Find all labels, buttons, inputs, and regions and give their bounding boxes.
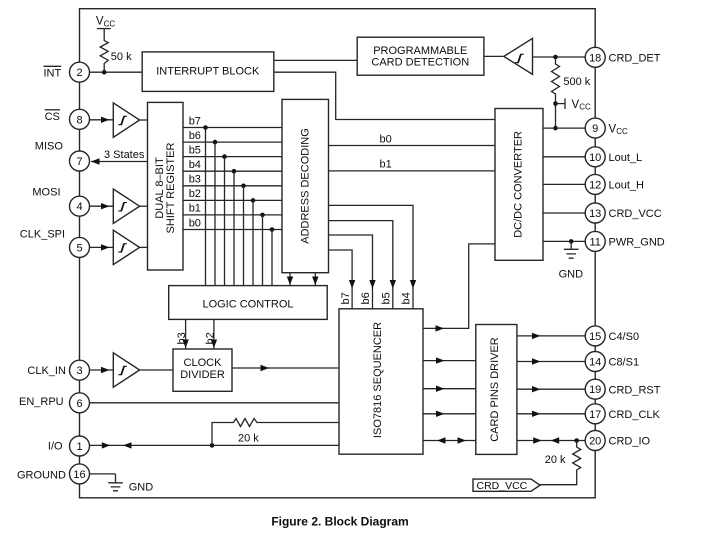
svg-text:b7: b7 xyxy=(189,115,201,127)
svg-text:b1: b1 xyxy=(380,159,392,171)
pin 11 xyxy=(585,231,605,251)
svg-text:20 k: 20 k xyxy=(238,433,259,445)
resistor R 500k xyxy=(552,57,560,128)
svg-text:7: 7 xyxy=(76,156,82,168)
svg-text:b2: b2 xyxy=(189,188,201,200)
svg-text:19: 19 xyxy=(589,384,601,396)
pin 10 xyxy=(585,147,605,167)
wire b0 bus drop to logic control xyxy=(271,230,273,286)
pin 2 xyxy=(70,62,90,82)
ground symbol (pin16) xyxy=(108,474,153,494)
wire b2 bus drop to logic control xyxy=(252,200,254,285)
svg-text:15: 15 xyxy=(589,331,601,343)
pin 8 xyxy=(70,109,90,129)
wire interrupt block to dc/dc converter xyxy=(274,72,495,119)
pin 16 xyxy=(70,464,90,484)
node junction crd_io 20k tap xyxy=(574,438,579,443)
wire b5 bus drop to logic control xyxy=(224,157,226,286)
wire shift register to pin7 (3 states) xyxy=(91,161,148,163)
svg-text:10: 10 xyxy=(589,152,601,164)
svg-text:CS: CS xyxy=(45,111,60,123)
programmable card detection block xyxy=(357,37,484,75)
arrowhead to pin 14 xyxy=(532,358,541,364)
power symbol VCC (right) xyxy=(556,98,591,111)
svg-text:Lout_H: Lout_H xyxy=(609,180,645,192)
svg-text:INTERRUPT BLOCK: INTERRUPT BLOCK xyxy=(156,66,260,78)
arrowhead bidir right xyxy=(458,437,467,443)
svg-text:Figure 2. Block Diagram: Figure 2. Block Diagram xyxy=(271,515,408,529)
pin label VCC xyxy=(609,123,628,136)
wire buffer to pin 18 xyxy=(533,56,586,58)
arrowhead b5 into sequencer xyxy=(390,280,396,289)
pin 12 xyxy=(585,174,605,194)
schmitt buffer U5 (card detect, pointing left) xyxy=(504,38,533,74)
svg-text:b4: b4 xyxy=(400,292,412,304)
svg-text:CRD_VCC: CRD_VCC xyxy=(609,208,662,220)
pin 5 xyxy=(70,237,90,257)
pin 6 xyxy=(70,393,90,413)
arrowhead into logic control left xyxy=(287,277,293,286)
pin 19 xyxy=(585,379,605,399)
wire net b1 address decoding to dc/dc xyxy=(329,170,496,172)
chip boundary xyxy=(80,9,596,498)
node junction CRD_DET/500k xyxy=(553,55,558,60)
address decoding block xyxy=(282,99,329,272)
wire dc/dc to pin 10 xyxy=(543,156,585,158)
arrowhead from pin 20 incoming xyxy=(551,437,560,443)
svg-text:GND: GND xyxy=(559,269,584,281)
svg-text:CRD_IO: CRD_IO xyxy=(609,436,651,448)
wire buffer to clock divider xyxy=(140,369,173,371)
arrowhead b2 into clock divider xyxy=(211,340,217,349)
wire pin16 to ground xyxy=(90,473,116,475)
svg-text:CC: CC xyxy=(104,19,116,28)
svg-text:CARD PINS DRIVER: CARD PINS DRIVER xyxy=(489,337,501,442)
svg-text:3: 3 xyxy=(76,365,82,377)
arrowhead into buffer pin8 xyxy=(101,117,110,123)
svg-text:b3: b3 xyxy=(176,332,188,344)
svg-text:CLK_SPI: CLK_SPI xyxy=(20,229,65,241)
arrowhead to pin 19 xyxy=(532,386,541,392)
wire iso to card pins driver 3 xyxy=(423,413,476,415)
arrowhead to pin 20 outgoing xyxy=(533,437,542,443)
wire net b5 shift register to address decoding xyxy=(183,156,282,158)
svg-text:b2: b2 xyxy=(204,332,216,344)
wire net b2 shift register to address decoding xyxy=(183,199,282,201)
pin 13 xyxy=(585,203,605,223)
pin 15 xyxy=(585,326,605,346)
wire pin8 to buffer xyxy=(90,119,114,121)
arrowhead I/O incoming xyxy=(123,442,132,448)
svg-text:C4/S0: C4/S0 xyxy=(609,331,640,343)
node junction pin2/50k xyxy=(102,70,107,75)
wire logic control b2 to clock divider xyxy=(213,319,215,349)
ground symbol (pin11) xyxy=(559,241,584,280)
wire card detection buffer to block xyxy=(484,55,504,57)
node junction b2 xyxy=(251,198,256,203)
card pins driver block xyxy=(476,325,517,455)
net flag CRD_VCC xyxy=(473,479,540,492)
svg-text:DC/DC CONVERTER: DC/DC CONVERTER xyxy=(513,131,525,238)
svg-text:50 k: 50 k xyxy=(111,51,132,63)
wire dc/dc to pin 9 xyxy=(543,127,585,129)
svg-text:b6: b6 xyxy=(189,130,201,142)
wire pin2 to interrupt block xyxy=(90,71,143,73)
svg-text:I/O: I/O xyxy=(48,441,63,453)
svg-text:2: 2 xyxy=(76,67,82,79)
svg-text:11: 11 xyxy=(589,236,600,248)
pin 14 xyxy=(585,352,605,372)
wire address decoding to iso sequencer b4 xyxy=(329,205,414,308)
wire net b0 shift register to address decoding xyxy=(183,229,282,231)
wire net b1 shift register to address decoding xyxy=(183,214,282,216)
wire b6 bus drop to logic control xyxy=(214,142,216,286)
node junction b0 xyxy=(270,227,275,232)
arrowhead b6 into sequencer xyxy=(369,280,375,289)
wire interrupt block to programmable card detection xyxy=(274,59,357,61)
pin 9 xyxy=(585,118,605,138)
node junction vcc tap xyxy=(553,101,558,106)
wire logic control b3 to clock divider xyxy=(185,319,187,349)
schmitt buffer U3 (CLK_SPI) xyxy=(113,230,139,264)
wire iso to card pins driver 1 xyxy=(423,360,476,362)
svg-text:b0: b0 xyxy=(189,217,201,229)
interrupt block U xyxy=(142,52,274,92)
arrowhead to pin 17 xyxy=(532,411,541,417)
arrowhead into buffer pin3 xyxy=(101,367,110,373)
arrowhead b3 into clock divider xyxy=(182,340,188,349)
svg-text:b0: b0 xyxy=(380,133,392,145)
svg-text:CARD DETECTION: CARD DETECTION xyxy=(371,57,469,69)
arrowhead into buffer pin4 xyxy=(101,203,110,209)
svg-text:Lout_L: Lout_L xyxy=(609,152,643,164)
pin 20 xyxy=(585,431,605,451)
svg-text:16: 16 xyxy=(73,469,85,481)
svg-text:20: 20 xyxy=(589,436,601,448)
svg-text:12: 12 xyxy=(589,179,601,191)
resistor R 20k (pull-up on I/O) xyxy=(212,419,339,446)
pin 18 xyxy=(585,47,605,67)
svg-text:LOGIC CONTROL: LOGIC CONTROL xyxy=(202,299,293,311)
svg-text:1: 1 xyxy=(76,441,82,453)
wire pin5 to buffer xyxy=(90,246,114,248)
resistor R 50k xyxy=(100,29,108,73)
arrowhead I/O outgoing xyxy=(102,442,111,448)
svg-text:b7: b7 xyxy=(340,292,352,304)
wire iso to card pins driver bidirectional xyxy=(423,440,476,442)
node junction b6 xyxy=(213,140,218,145)
dc/dc converter block xyxy=(495,109,543,261)
wire pin4 to buffer xyxy=(90,205,114,207)
wire b1 bus drop to logic control xyxy=(262,215,264,286)
wire EN_RPU pin6 to iso sequencer xyxy=(90,402,340,404)
svg-text:CRD_VCC: CRD_VCC xyxy=(477,480,528,492)
pin 17 xyxy=(585,404,605,424)
node junction b3 xyxy=(241,184,246,189)
iso7816 sequencer block xyxy=(339,309,423,454)
wire iso sequencer up to dc/dc converter xyxy=(423,244,495,329)
svg-text:ADDRESS DECODING: ADDRESS DECODING xyxy=(300,128,312,244)
wire address decoding to iso sequencer b5 xyxy=(329,221,393,309)
wire net b6 shift register to address decoding xyxy=(183,141,282,143)
wire pin3 to buffer xyxy=(90,369,114,371)
arrowhead clock to sequencer xyxy=(261,365,270,371)
svg-text:9: 9 xyxy=(592,123,598,135)
wire b7 bus drop to logic control xyxy=(205,128,207,286)
wire address decoding to logic control (right) xyxy=(314,273,316,286)
arrowhead on iso-dcdc wire xyxy=(436,325,445,331)
schmitt buffer U2 (MOSI) xyxy=(113,189,139,223)
logic control block xyxy=(169,286,328,320)
wire b3 bus drop to logic control xyxy=(243,186,245,286)
wire dc/dc to pin 11 xyxy=(543,240,585,242)
wire dc/dc to pin 12 xyxy=(543,183,585,185)
pin 4 xyxy=(70,196,90,216)
svg-text:b3: b3 xyxy=(189,174,201,186)
wire buffer to shift register xyxy=(140,205,148,207)
svg-text:GROUND: GROUND xyxy=(17,469,66,481)
pin 3 xyxy=(70,360,90,380)
wire card pins driver to pin 19 xyxy=(517,388,585,390)
power symbol VCC (top left) xyxy=(96,16,115,29)
svg-text:14: 14 xyxy=(589,357,601,369)
wire buffer to shift register xyxy=(140,246,148,248)
svg-text:CRD_CLK: CRD_CLK xyxy=(609,409,661,421)
wire address decoding to iso sequencer b7 xyxy=(329,250,353,309)
wire buffer to shift register xyxy=(140,119,148,121)
wire clock divider to iso sequencer xyxy=(232,367,339,369)
svg-text:3 States: 3 States xyxy=(104,149,145,161)
svg-text:b5: b5 xyxy=(381,292,393,304)
svg-text:CLK_IN: CLK_IN xyxy=(27,365,66,377)
svg-text:500 k: 500 k xyxy=(563,76,590,88)
resistor R 20k (CRD_IO pull-up) xyxy=(540,441,581,485)
wire I/O pin1 to iso sequencer xyxy=(90,444,340,446)
svg-text:GND: GND xyxy=(129,482,154,494)
arrowhead to pin 15 xyxy=(532,333,541,339)
svg-text:SHIFT REGISTER: SHIFT REGISTER xyxy=(165,143,177,234)
svg-text:CRD_DET: CRD_DET xyxy=(609,53,661,65)
clock divider block xyxy=(173,349,232,391)
svg-text:5: 5 xyxy=(76,242,82,254)
node junction pwr_gnd tap xyxy=(569,239,574,244)
arrowhead bidir left xyxy=(437,437,446,443)
svg-text:b5: b5 xyxy=(189,144,201,156)
schmitt buffer U1 (CS) xyxy=(113,103,139,137)
node junction b4 xyxy=(232,169,237,174)
svg-text:b6: b6 xyxy=(360,292,372,304)
arrowhead into driver 3 xyxy=(436,411,445,417)
node junction b7 xyxy=(203,125,208,130)
wire dc/dc to pin 13 xyxy=(543,212,585,214)
svg-text:INT: INT xyxy=(44,68,62,80)
svg-text:20 k: 20 k xyxy=(545,454,566,466)
node junction I/O 20k tap xyxy=(210,443,215,448)
wire net b4 shift register to address decoding xyxy=(183,170,282,172)
arrowhead to pin7 xyxy=(91,158,100,164)
svg-text:b4: b4 xyxy=(189,159,201,171)
pin label INT xyxy=(44,66,62,79)
svg-text:6: 6 xyxy=(76,398,82,410)
wire card pins driver to pin 14 xyxy=(517,361,585,363)
wire net b0 address decoding to dc/dc xyxy=(329,145,496,147)
svg-text:ISO7816 SEQUENCER: ISO7816 SEQUENCER xyxy=(372,322,384,438)
wire address decoding to logic control (left) xyxy=(289,273,291,286)
wire card pins driver to pin 15 xyxy=(517,335,585,337)
svg-text:4: 4 xyxy=(76,201,82,213)
svg-text:17: 17 xyxy=(589,409,601,421)
arrowhead b7 into sequencer xyxy=(349,280,355,289)
shift register block xyxy=(148,102,184,270)
svg-text:MOSI: MOSI xyxy=(32,187,60,199)
pin 7 xyxy=(70,151,90,171)
svg-text:b1: b1 xyxy=(189,203,201,215)
wire net b3 shift register to address decoding xyxy=(183,185,282,187)
arrowhead into buffer pin5 xyxy=(101,244,110,250)
svg-text:EN_RPU: EN_RPU xyxy=(19,396,64,408)
wire net b7 shift register to address decoding xyxy=(183,127,282,129)
pin label CS xyxy=(45,110,60,123)
svg-text:13: 13 xyxy=(589,208,601,220)
svg-text:CC: CC xyxy=(616,127,628,136)
svg-text:18: 18 xyxy=(589,52,601,64)
arrowhead into logic control right xyxy=(312,277,318,286)
schmitt buffer U4 (CLK_IN) xyxy=(113,353,139,387)
svg-text:CRD_RST: CRD_RST xyxy=(609,384,661,396)
svg-text:8: 8 xyxy=(76,114,82,126)
wire card pins driver to pin 17 xyxy=(517,413,585,415)
node junction 500k/pin9 line xyxy=(553,126,558,131)
wire address decoding to iso sequencer b6 xyxy=(329,235,373,309)
wire b4 bus drop to logic control xyxy=(233,171,235,285)
node junction b5 xyxy=(222,154,227,159)
svg-text:PWR_GND: PWR_GND xyxy=(609,237,665,249)
node junction b1 xyxy=(260,213,265,218)
svg-text:CC: CC xyxy=(579,103,591,112)
svg-text:C8/S1: C8/S1 xyxy=(609,357,640,369)
svg-text:CLOCK: CLOCK xyxy=(184,357,223,369)
svg-text:DIVIDER: DIVIDER xyxy=(180,369,225,381)
pin 1 xyxy=(70,436,90,456)
wire card pins driver to pin 20 xyxy=(517,440,585,442)
arrowhead into driver 2 xyxy=(436,386,445,392)
svg-text:PROGRAMMABLE: PROGRAMMABLE xyxy=(373,45,467,57)
arrowhead b4 into sequencer xyxy=(410,280,416,289)
arrowhead into driver 1 xyxy=(436,357,445,363)
svg-text:MISO: MISO xyxy=(35,141,64,153)
wire iso to card pins driver 2 xyxy=(423,388,476,390)
